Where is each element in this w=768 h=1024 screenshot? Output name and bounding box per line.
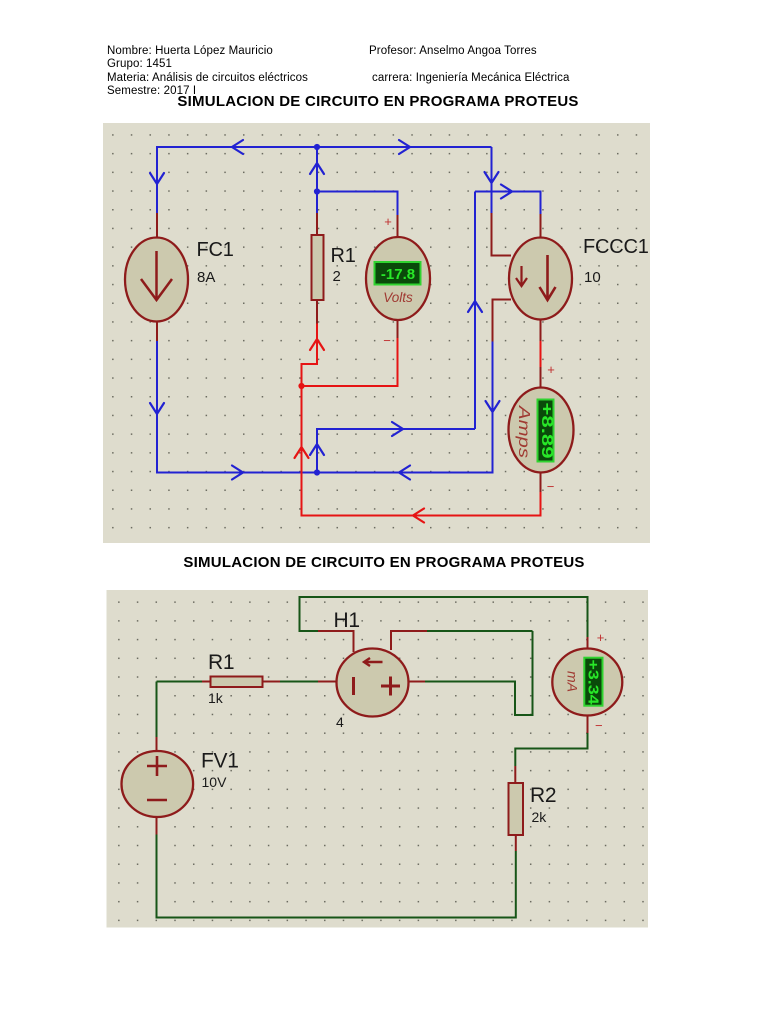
panel 1 background grid (103, 123, 650, 543)
node top bus (314, 144, 320, 150)
label FC1 (197, 239, 234, 261)
controlled source H1 (337, 649, 409, 717)
svg-text:10V: 10V (202, 774, 228, 790)
header name line (107, 45, 273, 57)
svg-text:+3.34: +3.34 (585, 660, 602, 706)
ammeter minus (547, 479, 555, 494)
wire node to voltmeter top (317, 192, 398, 239)
svg-text:+: + (384, 214, 392, 229)
arrow left bottom down (150, 403, 164, 414)
header group line (107, 58, 172, 70)
svg-text:Volts: Volts (383, 290, 413, 305)
resistor R2 (509, 783, 524, 835)
voltmeter display (375, 262, 421, 285)
svg-text:+: + (597, 630, 605, 645)
wire control return vertical (474, 192, 476, 430)
arrow R1 stub up (310, 339, 324, 350)
milliammeter minus (595, 718, 603, 733)
wire R1 to H1 (263, 681, 339, 683)
wire mid horizontal (317, 429, 475, 474)
svg-text:FC1: FC1 (197, 239, 234, 261)
node bottom bus (314, 469, 320, 475)
arrow fccc feed right (501, 185, 512, 199)
milliammeter unit label (565, 671, 581, 692)
resistor R1 (312, 235, 324, 300)
svg-text:FV1: FV1 (201, 750, 239, 773)
wire FCCC1 top feed (475, 192, 541, 239)
value 2k (532, 809, 548, 825)
wire H1 top right stub (391, 631, 533, 650)
node red (298, 383, 304, 389)
ammeter body (509, 388, 574, 473)
title 2 (0, 554, 768, 571)
milliammeter plus (597, 630, 605, 645)
svg-text:−: − (595, 718, 603, 733)
header career line (372, 72, 569, 84)
current source FC1 (125, 238, 188, 322)
header semester line (107, 85, 196, 97)
arrow bottom bus left (399, 466, 410, 480)
label FV1 (201, 750, 239, 773)
svg-text:mA: mA (565, 671, 581, 692)
resistor R1 c2 (211, 677, 263, 688)
milliammeter display (584, 658, 602, 706)
wire mA bottom (515, 714, 587, 784)
arrow left vertical down (150, 173, 164, 184)
value 1k (208, 690, 224, 706)
wire H1 right loop (408, 631, 533, 715)
svg-text:−: − (383, 333, 391, 348)
controlled source FCCC1 (509, 238, 572, 320)
svg-text:8A: 8A (197, 269, 215, 286)
voltmeter plus (384, 214, 392, 229)
svg-text:Amps: Amps (515, 405, 532, 458)
wire FV1 top (156, 682, 158, 753)
arrow stub up (310, 444, 324, 455)
wire FV1 to R1 (157, 681, 212, 683)
arrow mid horizontal right (392, 422, 403, 436)
arrow control return up (468, 301, 482, 312)
ammeter display (538, 400, 555, 462)
voltmeter minus (383, 333, 391, 348)
svg-text:−: − (547, 479, 555, 494)
voltmeter body (366, 237, 430, 320)
svg-text:1k: 1k (208, 690, 224, 706)
title 1 (0, 93, 762, 110)
header professor line (369, 45, 537, 57)
svg-text:R1: R1 (208, 651, 234, 674)
svg-text:2: 2 (333, 268, 341, 285)
svg-text:+: + (547, 362, 555, 377)
svg-text:R2: R2 (530, 784, 556, 807)
arrow top bus left (232, 140, 243, 154)
svg-text:2k: 2k (532, 809, 548, 825)
wire R1 bottom jog (302, 300, 318, 386)
wire FCCC1 to ammeter (540, 319, 542, 389)
voltmeter unit label (383, 290, 413, 305)
milliammeter body (552, 649, 622, 716)
wire top bus (157, 146, 492, 148)
wire node column upper (316, 147, 318, 192)
wire node to R1 (316, 192, 318, 237)
svg-text:H1: H1 (334, 609, 360, 632)
wire red bottom loop (302, 386, 541, 516)
svg-text:10: 10 (584, 269, 601, 286)
arrow top bus right (399, 140, 410, 154)
arrow red vertical up (295, 447, 309, 458)
wire node to voltmeter bottom (302, 319, 398, 386)
label R1 c2 (208, 651, 234, 674)
arrow control bottom down (486, 401, 500, 412)
wire FCCC1 control bottom down (493, 300, 512, 474)
value 4 (336, 714, 344, 730)
arrow bottom bus right (232, 466, 243, 480)
svg-text:+8.89: +8.89 (538, 403, 555, 459)
wire bottom bus (157, 472, 493, 474)
voltage source FV1 (122, 751, 194, 817)
wire R2 bottom loop (157, 815, 516, 918)
arrow red bottom left (413, 509, 424, 523)
label FCCC1 (583, 236, 649, 258)
arrow right vertical down (485, 172, 499, 183)
wire FC1 bottom to bus (156, 322, 158, 474)
label H1 (334, 609, 360, 632)
label R2 (530, 784, 556, 807)
arrow node column up (310, 163, 324, 174)
value 2 (333, 268, 341, 285)
panel 2 background grid (107, 590, 649, 928)
svg-text:R1: R1 (331, 245, 356, 267)
svg-text:FCCC1: FCCC1 (583, 236, 649, 258)
ammeter plus (547, 362, 555, 377)
wire left vertical to FC1 (156, 146, 158, 237)
svg-text:4: 4 (336, 714, 344, 730)
label R1 (331, 245, 356, 267)
svg-text:-17.8: -17.8 (381, 266, 415, 283)
ammeter unit label (515, 405, 532, 458)
value 10V (202, 774, 228, 790)
wire H1 top left stub (300, 597, 588, 652)
header subject line (107, 72, 308, 84)
value 8A (197, 269, 215, 286)
node mid (314, 188, 320, 194)
value 10 (584, 269, 601, 286)
wire top bus to FCCC1 control top (492, 147, 512, 256)
